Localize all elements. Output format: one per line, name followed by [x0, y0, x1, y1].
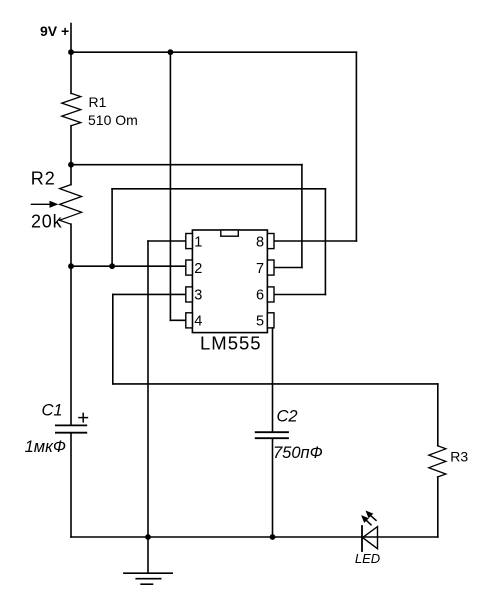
node threshold branch junction	[109, 263, 115, 269]
op-amp U1: IC LM555 body	[192, 230, 267, 333]
notch of IC	[221, 230, 239, 236]
svg-text:R3: R3	[450, 449, 468, 465]
svg-text:8: 8	[256, 234, 264, 250]
pin 4 box	[186, 313, 193, 328]
pin 8 box	[267, 234, 274, 249]
pin 7 box	[267, 260, 274, 275]
wire ground/bottom rail	[71, 536, 438, 538]
wire C2 bottom vertical	[272, 439, 274, 538]
wire R2 bottom to trigger junction	[70, 224, 72, 266]
svg-text:750пФ: 750пФ	[273, 444, 323, 462]
svg-text:510 Om: 510 Om	[88, 112, 138, 128]
svg-text:3: 3	[194, 288, 202, 304]
wire VCC rail horizontal	[71, 51, 356, 53]
node VCC junction left	[68, 49, 74, 55]
wire junction to pin7 horizontal	[71, 164, 302, 166]
node trigger junction left	[68, 263, 74, 269]
wire pin5 to C2 vertical	[272, 328, 274, 432]
resistor R3	[429, 446, 446, 477]
wire pin1 to ground vertical	[147, 241, 149, 537]
svg-text:LM555: LM555	[200, 333, 262, 354]
pin 2 box	[186, 260, 193, 275]
svg-text:20k: 20k	[31, 212, 63, 232]
wire 9V supply vertical top	[70, 24, 72, 94]
wiper arrow of R2	[31, 203, 52, 205]
node VCC junction mid	[168, 49, 174, 55]
svg-text:R2: R2	[31, 168, 56, 188]
LED arrow 2	[366, 520, 371, 525]
svg-text:7: 7	[256, 261, 264, 277]
LED D1	[361, 526, 363, 551]
capacitor C2	[256, 431, 288, 433]
wire R3 top vertical	[437, 384, 439, 446]
pin 6 box	[267, 287, 274, 302]
node R1-R2 junction	[68, 162, 74, 168]
wire pin6 vertical	[324, 189, 326, 295]
svg-text:1мкФ: 1мкФ	[25, 438, 66, 456]
svg-text:1: 1	[194, 234, 202, 250]
ground symbol	[147, 537, 149, 573]
wire VCC to pin4 vertical	[169, 52, 171, 320]
svg-text:6: 6	[256, 288, 264, 304]
wire VCC to pin8 vertical	[355, 52, 357, 241]
wire C1 bottom vertical	[70, 433, 72, 537]
wire pin4 horizontal	[170, 319, 185, 321]
svg-text:2: 2	[194, 261, 202, 277]
wire pin3 vertical down	[112, 294, 114, 384]
LED arrow 1	[371, 516, 376, 521]
pin 5 box	[267, 313, 274, 328]
wire trigger junction to pin2	[71, 265, 186, 267]
svg-text:9V +: 9V +	[40, 23, 69, 39]
svg-text:5: 5	[256, 314, 264, 330]
wire output horizontal to R3	[113, 383, 438, 385]
pin 3 box	[186, 287, 193, 302]
wire pin1 horizontal	[148, 240, 186, 242]
pin 1 box	[186, 234, 193, 249]
svg-text:R1: R1	[89, 94, 107, 110]
wire pin7 vertical	[301, 165, 303, 268]
svg-text:C1: C1	[42, 401, 63, 419]
node ground junction	[145, 534, 151, 540]
wire R3 bottom vertical	[437, 477, 439, 537]
svg-text:C2: C2	[277, 407, 298, 425]
wire pin6 horizontal stub	[274, 294, 325, 296]
resistor R1	[62, 93, 81, 125]
wire pin8 horizontal	[274, 240, 356, 242]
wire threshold horizontal	[112, 188, 325, 190]
capacitor C1	[56, 424, 86, 426]
wire threshold branch vertical up	[111, 189, 113, 266]
plus sign of C1	[79, 417, 87, 419]
potentiometer R2	[60, 185, 82, 224]
node C2 bottom junction	[270, 534, 276, 540]
svg-text:LED: LED	[355, 551, 380, 566]
svg-text:4: 4	[194, 314, 202, 330]
wire pin3 horizontal	[113, 293, 186, 295]
wire R1 bottom to junction	[70, 126, 72, 185]
wire trigger junction down to C1	[70, 266, 72, 425]
wire pin7 horizontal stub	[268, 267, 302, 269]
